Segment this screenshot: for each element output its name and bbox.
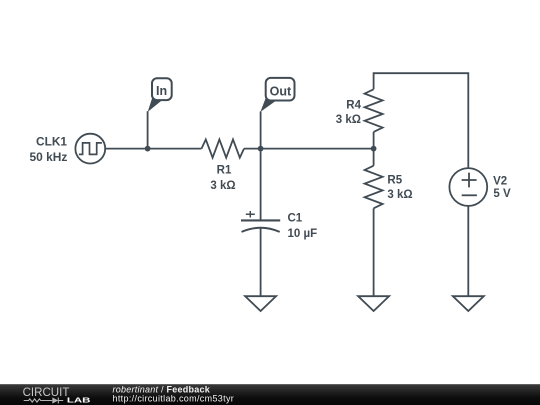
- svg-text:In: In: [156, 84, 167, 98]
- svg-text:3 kΩ: 3 kΩ: [387, 189, 412, 201]
- svg-text:LAB: LAB: [67, 395, 91, 404]
- svg-text:3 kΩ: 3 kΩ: [336, 114, 361, 126]
- svg-text:http://circuitlab.com/cm53tyr: http://circuitlab.com/cm53tyr: [113, 393, 235, 403]
- svg-text:R1: R1: [217, 165, 232, 177]
- svg-text:CIRCUIT: CIRCUIT: [23, 385, 70, 399]
- svg-text:10 µF: 10 µF: [288, 228, 318, 240]
- svg-text:50 kHz: 50 kHz: [30, 152, 68, 164]
- svg-text:Out: Out: [270, 85, 292, 99]
- svg-text:V2: V2: [493, 176, 507, 188]
- svg-text:CLK1: CLK1: [36, 137, 68, 149]
- svg-text:R5: R5: [387, 174, 402, 186]
- svg-text:5 V: 5 V: [493, 188, 511, 200]
- svg-text:C1: C1: [288, 213, 303, 225]
- svg-text:3 kΩ: 3 kΩ: [210, 180, 235, 192]
- svg-text:R4: R4: [346, 100, 361, 112]
